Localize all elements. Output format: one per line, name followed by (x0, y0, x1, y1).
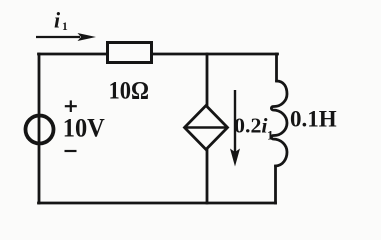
svg-text:0.1H: 0.1H (290, 107, 337, 132)
svg-text:10V: 10V (63, 114, 105, 143)
svg-text:1: 1 (267, 128, 274, 143)
svg-text:i: i (54, 8, 61, 33)
svg-text:1: 1 (62, 21, 68, 33)
svg-text:10Ω: 10Ω (109, 77, 150, 104)
svg-text:0.2i: 0.2i (234, 114, 268, 138)
